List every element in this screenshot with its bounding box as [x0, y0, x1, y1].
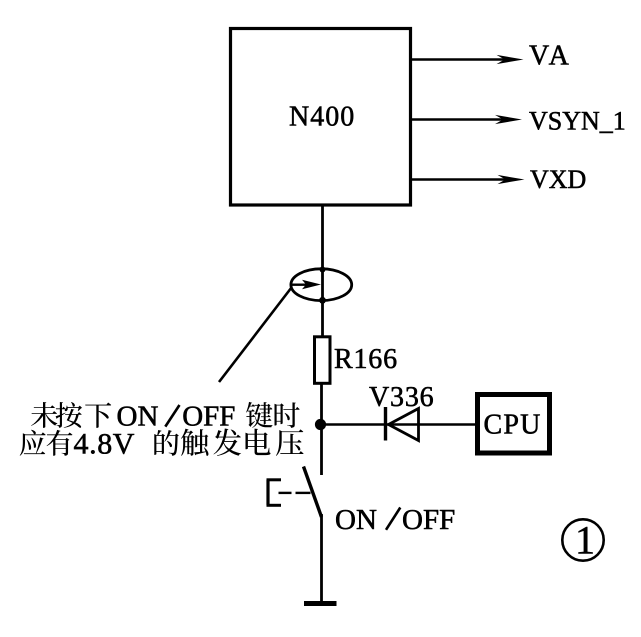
wire: R166 to junction	[320, 383, 323, 424]
wire: N400 pin down to R166	[321, 205, 324, 338]
svg-text:OFF: OFF	[402, 504, 455, 536]
IC N400	[231, 29, 411, 206]
svg-text:OFF: OFF	[182, 401, 235, 433]
annotation note line 2: 应有 4.8V 的触发电压	[20, 427, 304, 460]
switch ON/OFF (push-button)	[267, 467, 322, 518]
wire: switch to ground	[320, 514, 323, 601]
svg-text:V336: V336	[369, 382, 434, 413]
svg-text:ON: ON	[335, 504, 377, 536]
figure number 1 (circled)	[562, 518, 603, 563]
wire: VSYN_1 output arrow	[412, 115, 522, 124]
ground	[304, 601, 337, 606]
svg-text:R166: R166	[334, 344, 398, 375]
diode V336	[386, 407, 419, 441]
test point probe ellipse	[291, 267, 352, 304]
wire: junction down to switch	[320, 425, 323, 476]
annotation note line 1: 未按下 ON/OFF 键时	[31, 401, 300, 433]
junction node (trigger voltage node)	[315, 419, 326, 430]
svg-text:VA: VA	[529, 41, 572, 72]
svg-text:VSYN_1: VSYN_1	[529, 107, 626, 136]
svg-text:N400: N400	[289, 102, 355, 133]
node VSYN_1 label	[529, 107, 626, 136]
wire: VXD output arrow	[412, 175, 525, 184]
svg-text:4.8V: 4.8V	[74, 427, 136, 460]
diode V336 label	[369, 382, 434, 413]
IC CPU label	[484, 410, 542, 441]
svg-text:CPU: CPU	[484, 410, 542, 441]
pointer arrow from note to test point	[219, 280, 321, 382]
switch label ON/OFF	[335, 504, 455, 536]
resistor R166	[315, 337, 331, 384]
node VXD label	[530, 165, 586, 194]
resistor R166 value label	[334, 344, 398, 375]
svg-text:VXD: VXD	[530, 165, 586, 194]
node VA label	[529, 41, 572, 72]
wire: junction through diode to CPU	[321, 423, 478, 426]
IC CPU	[478, 395, 550, 454]
wire: VA output arrow	[412, 55, 524, 64]
svg-text:1: 1	[575, 518, 595, 563]
IC N400 label	[289, 102, 355, 133]
